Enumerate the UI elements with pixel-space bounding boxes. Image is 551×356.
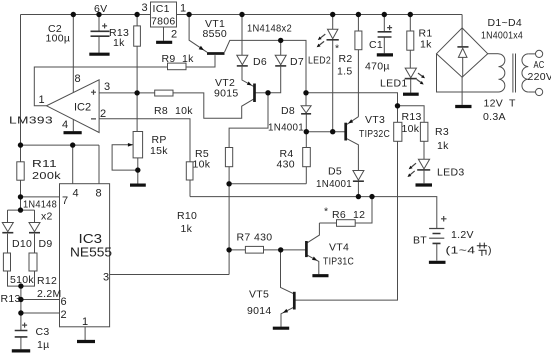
ground (LED3)	[416, 183, 433, 186]
svg-text:1k: 1k	[181, 223, 193, 235]
svg-text:(1~4: (1~4	[446, 245, 476, 257]
capacitor C3 1u	[15, 331, 28, 337]
svg-text:R12: R12	[37, 275, 57, 287]
svg-text:220V: 220V	[528, 71, 551, 83]
svg-text:100µ: 100µ	[46, 33, 71, 45]
wire C3 to ground	[20, 337, 22, 349]
svg-text:2: 2	[100, 108, 106, 120]
LED1	[405, 68, 416, 78]
svg-text:LED2: LED2	[308, 55, 331, 67]
LED3	[418, 159, 429, 169]
svg-text:*: *	[324, 206, 328, 218]
diode D8 1N4001	[301, 106, 311, 113]
wire D6 anode from rail	[241, 15, 243, 56]
resistor R10 1k	[186, 162, 193, 180]
svg-text:x2: x2	[41, 211, 53, 223]
svg-text:430: 430	[277, 159, 295, 171]
timer IC3 NE555	[60, 184, 110, 327]
svg-text:D8: D8	[281, 105, 295, 117]
svg-text:7: 7	[62, 195, 68, 207]
svg-text:IC2: IC2	[74, 102, 91, 114]
svg-text:AC: AC	[534, 59, 545, 71]
svg-text:1k: 1k	[113, 37, 125, 49]
wire VT3 collector to D5	[346, 138, 359, 170]
svg-text:1: 1	[82, 316, 88, 328]
resistor R7 430	[245, 246, 263, 253]
wire R2 top	[357, 15, 359, 32]
svg-text:C1: C1	[369, 39, 383, 51]
node D7 anode	[278, 38, 283, 43]
wire D8 anode stub	[305, 93, 307, 106]
resistor R13 10k (middle)	[394, 122, 402, 141]
svg-text:12: 12	[353, 209, 365, 221]
resistor R12 2.2M	[29, 253, 37, 271]
svg-text:TIP32C: TIP32C	[359, 128, 390, 140]
wire diode to resistor links	[8, 234, 35, 253]
node rail junctions	[71, 12, 76, 17]
svg-text:R2: R2	[339, 53, 353, 65]
ground (IC3 pin 1)	[77, 340, 95, 343]
wire bridge top stub	[461, 15, 463, 28]
resistor R4 430	[303, 148, 311, 167]
wire R6 leads	[319, 197, 372, 223]
node diode branch tee	[18, 207, 23, 212]
node RP bottom	[135, 167, 140, 172]
svg-text:C3: C3	[36, 326, 50, 338]
ground (C1)	[377, 53, 393, 56]
capacitor C2	[91, 31, 110, 36]
wire IC3 pin 3 to R7 node	[110, 274, 230, 276]
wire R4 top	[305, 132, 307, 148]
ground (LED1)	[403, 93, 419, 96]
svg-text:VT5: VT5	[249, 289, 269, 301]
ground (IC2 pin 4)	[64, 131, 82, 134]
resistor R6 12	[337, 220, 356, 227]
node B (VT2 base)	[265, 90, 270, 95]
svg-text:2: 2	[61, 309, 67, 321]
wire LED2 anode from rail	[332, 15, 334, 30]
svg-text:1: 1	[39, 94, 45, 106]
wire D10/D9 anode branch	[8, 210, 35, 222]
diode D10	[2, 223, 13, 232]
node R7 right	[278, 247, 283, 252]
wire node B down to R5	[229, 93, 268, 148]
resistor R13 1k (top left)	[134, 26, 141, 46]
resistor R1 1k	[407, 31, 414, 50]
wire left rail	[20, 15, 22, 211]
wire IC3 pin 7	[21, 196, 60, 198]
wire bridge bottom to ground	[461, 77, 463, 105]
transformer T	[499, 54, 505, 92]
svg-text:LED3: LED3	[437, 167, 464, 179]
svg-text:2.2M: 2.2M	[37, 288, 62, 300]
svg-text:470µ: 470µ	[365, 61, 390, 73]
svg-text:8: 8	[75, 73, 81, 85]
wire VT2 base	[255, 92, 268, 94]
resistor R11 200k	[17, 162, 24, 180]
svg-text:R13: R13	[1, 293, 21, 305]
wire R13a column to node A	[136, 15, 138, 132]
wire node C to R13b/R3	[306, 93, 424, 123]
ground (C2)	[89, 53, 109, 56]
svg-text:): )	[488, 245, 492, 257]
LED2	[328, 29, 338, 38]
svg-text:1: 1	[180, 3, 186, 15]
resistor R2 1.5	[355, 31, 362, 50]
wire VT4 base	[281, 249, 306, 251]
node 510k/R12 join	[18, 283, 23, 288]
diode D9	[29, 223, 40, 232]
node A (pin3)	[134, 90, 139, 95]
svg-text:1N4001: 1N4001	[316, 178, 352, 190]
op-amp IC2 LM393	[47, 80, 100, 133]
transistor VT4 TIP31C	[305, 241, 308, 257]
transistor VT5 9014	[293, 292, 296, 310]
transistor VT3 TIP32C	[344, 123, 347, 141]
ground (VT5)	[273, 327, 289, 330]
svg-text:9014: 9014	[247, 305, 272, 317]
wire D7 cathode elbow	[268, 67, 281, 93]
wire 510k/R12 bottoms to node	[8, 271, 35, 286]
svg-text:1.2V: 1.2V	[451, 229, 474, 241]
svg-text:LM393: LM393	[9, 115, 53, 127]
wire D5 cathode stub	[357, 182, 359, 197]
node C (D8 anode)	[303, 90, 308, 95]
wire IC2 output feedback to R9	[34, 67, 167, 106]
capacitor C1 470u	[378, 32, 392, 37]
node VCC/IC3 feed left	[18, 142, 23, 147]
diode D5 1N4001	[353, 171, 364, 181]
svg-text:12V: 12V	[484, 98, 504, 110]
ground (IC1 pin 2)	[156, 41, 172, 44]
wire D6 cathode to VT2 emitter	[242, 67, 254, 87]
wire IC2 pin 2 line to R10	[99, 119, 190, 162]
wire D7 anode stub	[280, 40, 282, 55]
wire bottom-left node column	[20, 286, 22, 330]
svg-text:IC1: IC1	[153, 3, 170, 15]
node D8 cathode	[304, 129, 309, 134]
wire VCC feed to IC3 pins 4,8	[21, 145, 100, 184]
node R5/R4 bottoms	[226, 181, 231, 186]
svg-text:4: 4	[73, 188, 79, 200]
wire bridge right vertex to secondary top	[488, 53, 499, 55]
wire VT1 emitter from rail	[189, 15, 207, 53]
wire RP bottom and wiper	[112, 145, 138, 184]
svg-text:10k: 10k	[193, 159, 211, 171]
wire VT5 collector riser	[281, 250, 295, 294]
wire D8 cathode to VT3 base	[306, 114, 345, 132]
wire bridge left vertex to secondary bottom	[437, 54, 499, 92]
wire VT4 collector riser	[307, 223, 320, 243]
svg-text:R8: R8	[154, 105, 168, 117]
node R7 left	[226, 247, 231, 252]
resistor R9 1k	[168, 63, 187, 70]
svg-text:2: 2	[171, 29, 177, 41]
wire VT3 emitter riser to R2	[346, 50, 359, 125]
svg-text:LED1: LED1	[380, 78, 407, 90]
wire battery to ground	[436, 244, 438, 261]
svg-text:R10: R10	[177, 210, 197, 222]
svg-text:1µ: 1µ	[37, 339, 50, 351]
svg-text:7806: 7806	[151, 16, 176, 28]
transistor VT2 9015	[253, 84, 256, 103]
svg-text:VT4: VT4	[329, 242, 349, 254]
wire IC2 pin 8 riser	[72, 15, 74, 93]
svg-text:TIP31C: TIP31C	[323, 256, 354, 268]
svg-text:R6: R6	[332, 209, 346, 221]
svg-text:10k: 10k	[402, 123, 420, 135]
wire IC2 pin 4 stub	[72, 119, 74, 131]
wire C2 stubs	[98, 15, 100, 53]
wire IC3 pin 2	[21, 312, 60, 314]
wire C1 stubs	[383, 15, 385, 54]
wire VT5 emitter to ground	[281, 307, 294, 327]
svg-text:D1~D4: D1~D4	[488, 17, 522, 29]
svg-text:R9: R9	[162, 53, 176, 65]
ground (battery)	[429, 261, 446, 264]
wire LED2 cathode column	[332, 40, 334, 132]
svg-text:VT3: VT3	[365, 114, 385, 126]
node pin2 tee	[18, 310, 23, 315]
svg-text:D7: D7	[290, 56, 304, 68]
svg-text:1N4148: 1N4148	[23, 199, 57, 211]
svg-text:R13: R13	[402, 111, 422, 123]
transistor VT1 8550	[207, 52, 225, 55]
svg-text:R11: R11	[32, 158, 57, 170]
svg-text:1N4148x2: 1N4148x2	[247, 23, 292, 35]
svg-text:T: T	[509, 98, 516, 110]
resistor R8 10k	[155, 90, 173, 96]
svg-text:9015: 9015	[214, 88, 239, 100]
ground (RP)	[130, 184, 146, 187]
wire R7 leads	[229, 249, 281, 251]
wire VT1 base stub	[214, 55, 216, 67]
resistor R5 10k	[225, 148, 232, 167]
resistor R3 1k	[420, 122, 428, 141]
svg-text:NE555: NE555	[70, 245, 112, 260]
wire IC3 pin 6	[21, 299, 60, 301]
wire VT1 collector line	[225, 40, 307, 92]
wire R5/R4 bottom link	[229, 167, 306, 184]
wire R5 bottom column	[228, 167, 230, 275]
svg-text:1k: 1k	[182, 53, 194, 65]
wire IC1 pin 2 stub	[163, 27, 165, 41]
node LED2 cathode	[330, 129, 335, 134]
svg-text:1N4001x4: 1N4001x4	[481, 30, 523, 42]
svg-text:D9: D9	[39, 238, 53, 250]
svg-text:10k: 10k	[175, 105, 193, 117]
wire IC2 pin 3 line	[99, 93, 254, 118]
node R13b/R3	[395, 103, 400, 108]
node D5 on battery line	[356, 194, 361, 199]
svg-text:430: 430	[254, 232, 272, 244]
svg-text:200k: 200k	[32, 170, 62, 182]
svg-text:BT: BT	[413, 235, 427, 247]
svg-text:D5: D5	[328, 166, 342, 178]
node pin7 tee	[18, 194, 23, 199]
svg-text:R7: R7	[237, 232, 251, 244]
svg-text:1N4001: 1N4001	[268, 122, 304, 134]
wire battery positive line	[190, 180, 437, 228]
bridge rectifier D1~D4	[437, 28, 488, 77]
svg-text:8550: 8550	[203, 28, 228, 40]
svg-text:D10: D10	[12, 238, 32, 250]
svg-text:1k: 1k	[437, 140, 449, 152]
ground (VT4)	[312, 274, 328, 277]
wire VT4 emitter to ground	[307, 255, 319, 274]
node R6 on battery line	[369, 194, 374, 199]
svg-text:3: 3	[103, 272, 109, 284]
wire IC3 pin 1 stub	[84, 327, 86, 340]
svg-text:R3: R3	[435, 126, 449, 138]
node IC3 pin4 riser	[70, 142, 75, 147]
ground (C3)	[12, 349, 30, 352]
svg-text:3: 3	[142, 2, 148, 14]
diode D7	[275, 55, 286, 65]
svg-text:3: 3	[104, 81, 110, 93]
diode D6	[237, 55, 248, 65]
svg-text:0.3A: 0.3A	[483, 111, 506, 123]
svg-text:8: 8	[96, 188, 102, 200]
svg-text:1k: 1k	[420, 39, 432, 51]
svg-text:1.5: 1.5	[337, 66, 353, 78]
wire 6V rail	[21, 14, 463, 16]
wire R13b bottom to VT5 base	[295, 141, 398, 300]
svg-text:4: 4	[62, 119, 68, 131]
wire R9 to VT1 base	[186, 55, 215, 67]
svg-text:D6: D6	[253, 56, 267, 68]
wire R1 column to LED1	[409, 15, 411, 93]
battery BT	[429, 229, 444, 239]
potentiometer RP 15k	[133, 132, 143, 158]
ground (bridge)	[455, 105, 471, 108]
resistor R13 510k (bottom left)	[3, 253, 10, 271]
regulator IC1 7806	[151, 2, 177, 27]
svg-text:15k: 15k	[150, 145, 168, 157]
node pin6 tee	[18, 297, 23, 302]
